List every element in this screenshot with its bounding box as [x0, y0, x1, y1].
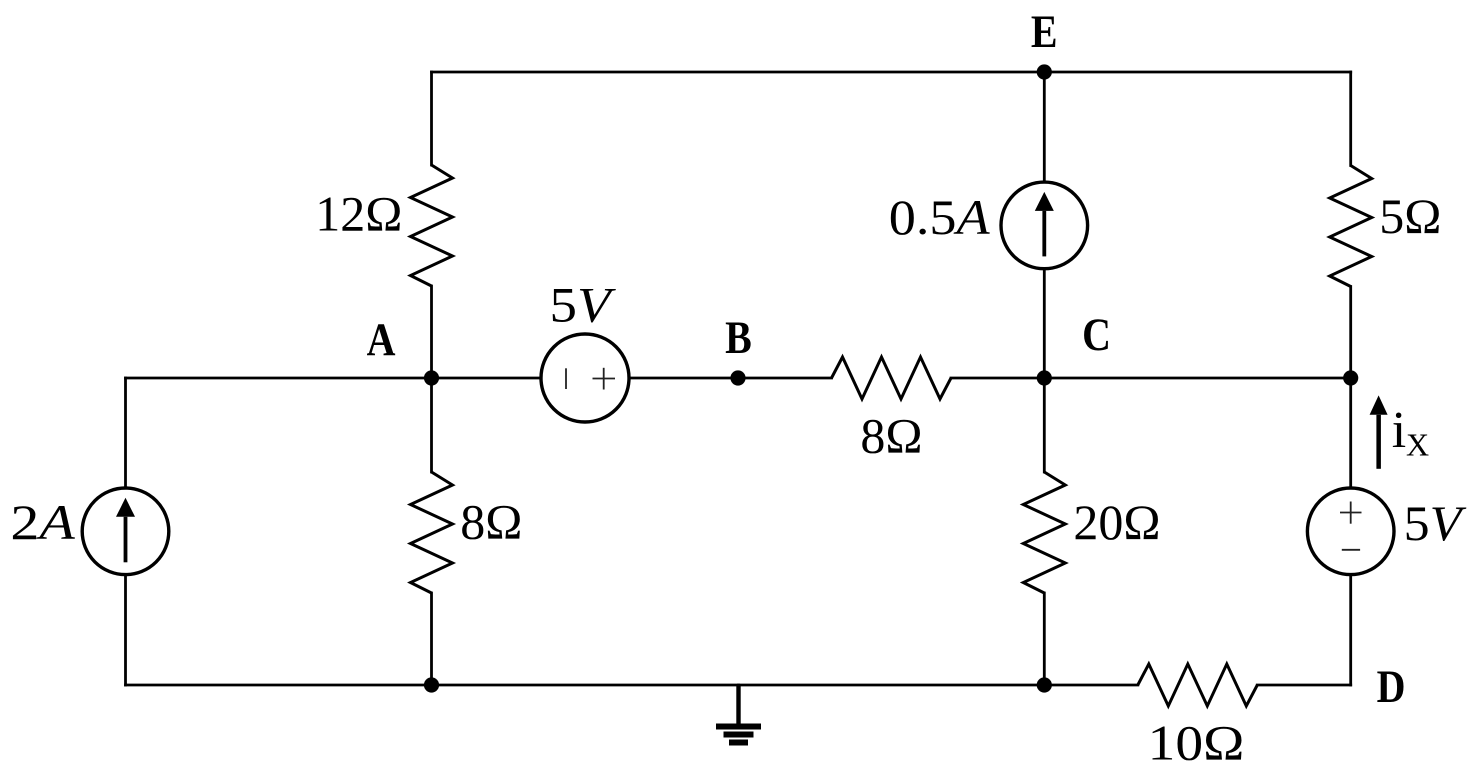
svg-text:5Ω: 5Ω	[1379, 188, 1441, 244]
svg-text:10Ω: 10Ω	[1148, 716, 1245, 771]
svg-text:5V: 5V	[1404, 497, 1468, 552]
svg-text:D: D	[1377, 661, 1406, 713]
svg-text:X: X	[1406, 427, 1429, 463]
svg-text:C: C	[1082, 309, 1111, 361]
svg-text:8Ω: 8Ω	[860, 408, 922, 464]
svg-text:20Ω: 20Ω	[1073, 494, 1160, 550]
svg-text:2A: 2A	[10, 495, 75, 550]
svg-text:8Ω: 8Ω	[460, 494, 522, 550]
svg-text:E: E	[1031, 6, 1058, 58]
svg-text:A: A	[367, 314, 396, 366]
svg-text:12Ω: 12Ω	[315, 186, 402, 242]
svg-text:i: i	[1392, 402, 1406, 459]
svg-text:0.5A: 0.5A	[889, 191, 991, 246]
svg-text:B: B	[725, 312, 752, 364]
svg-text:5V: 5V	[550, 278, 617, 333]
